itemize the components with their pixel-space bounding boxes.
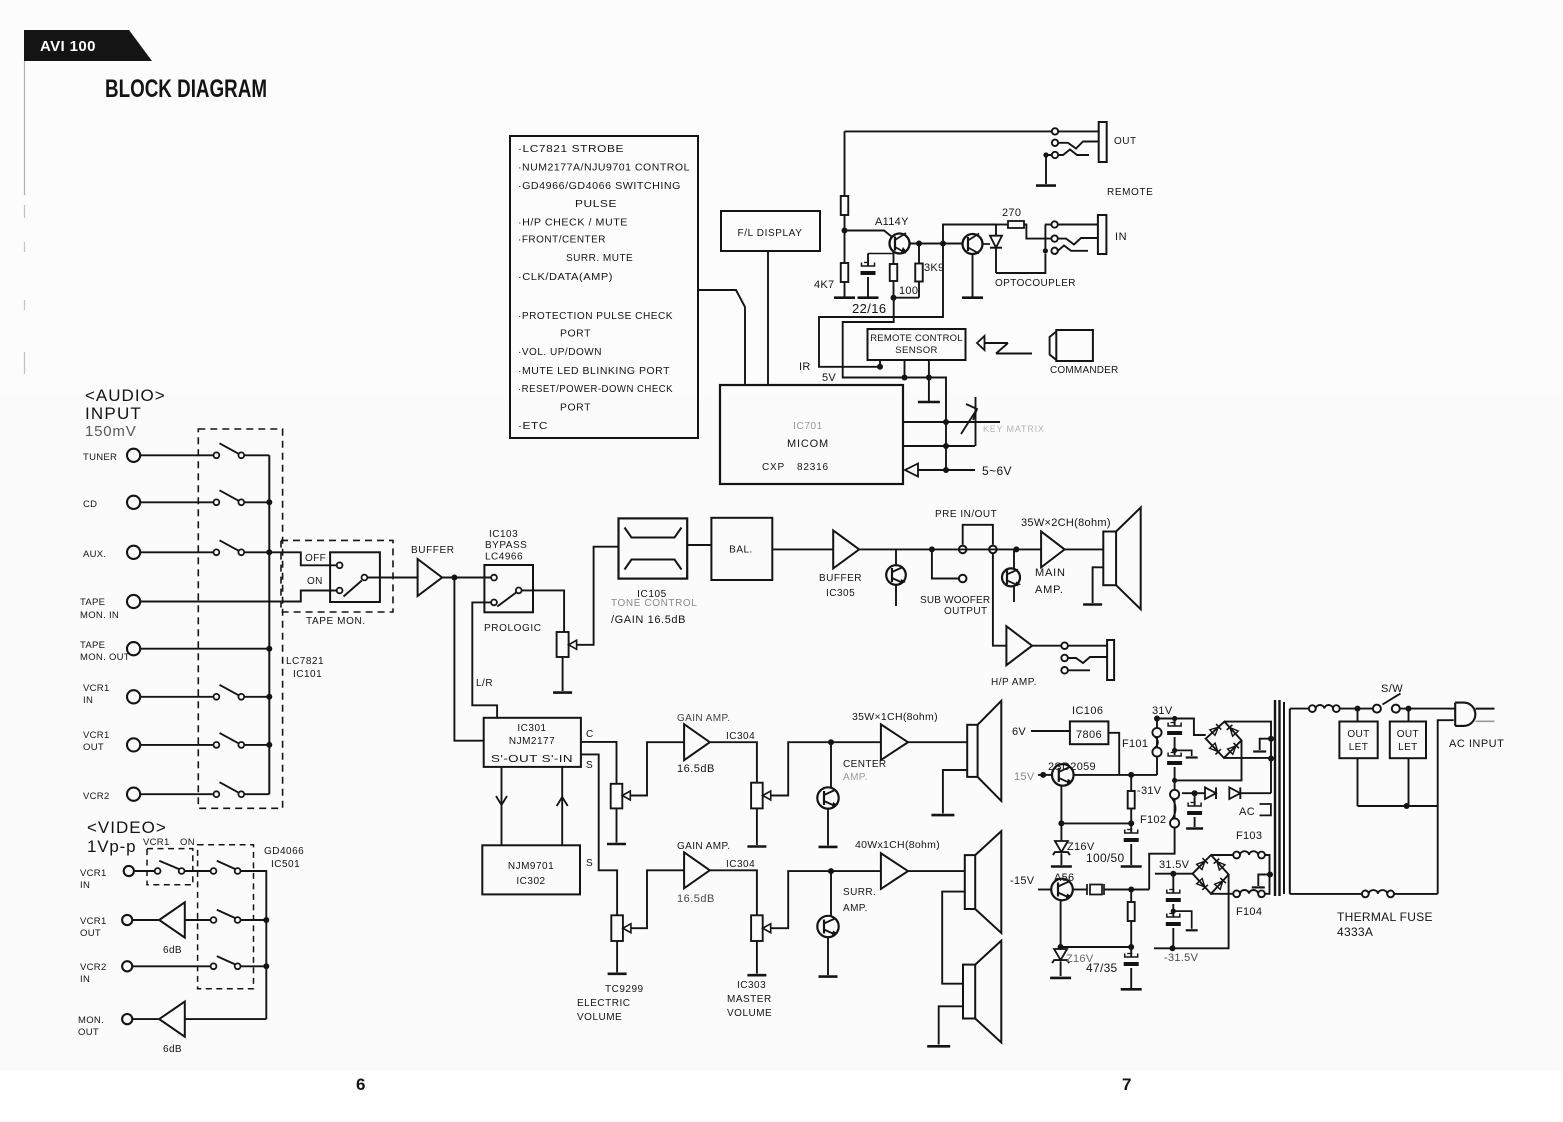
wire remote out sleeve to ground xyxy=(1046,155,1052,184)
ground xyxy=(1036,184,1056,187)
ground xyxy=(747,974,766,977)
svg-text:IC303: IC303 xyxy=(737,980,766,991)
resistor 100 xyxy=(890,264,898,281)
svg-text:OUT: OUT xyxy=(1114,136,1137,147)
wire common to buffer xyxy=(367,577,417,579)
svg-text:MON. OUT: MON. OUT xyxy=(80,652,130,663)
surround amp xyxy=(881,853,908,889)
svg-text:IN: IN xyxy=(80,974,90,985)
svg-text:SURR. MUTE: SURR. MUTE xyxy=(566,253,633,264)
svg-text:GAIN AMP.: GAIN AMP. xyxy=(677,713,730,724)
svg-text:PROLOGIC: PROLOGIC xyxy=(484,623,542,634)
svg-text:270: 270 xyxy=(1002,207,1021,219)
MICOM port list box xyxy=(510,136,698,438)
svg-text:VCR1: VCR1 xyxy=(83,683,110,694)
svg-text:47/35: 47/35 xyxy=(1086,961,1118,975)
svg-text:OUT: OUT xyxy=(80,928,101,939)
wire phototransistor emitter to ground xyxy=(972,254,974,298)
ground xyxy=(608,972,627,975)
svg-text:CENTER: CENTER xyxy=(843,759,887,770)
ground xyxy=(962,296,983,299)
transformer winding tap lower xyxy=(1258,875,1270,887)
svg-text:PULSE: PULSE xyxy=(575,199,617,210)
svg-text:6dB: 6dB xyxy=(163,1044,182,1055)
wire and switch AUX. xyxy=(140,551,213,553)
svg-text:S: S xyxy=(586,760,593,771)
wire to headphone jack xyxy=(1032,645,1061,647)
svg-text:AMP.: AMP. xyxy=(1035,584,1064,596)
svg-text:1Vp-p: 1Vp-p xyxy=(87,837,136,856)
svg-text:·NUM2177A/NJU9701 CONTROL: ·NUM2177A/NJU9701 CONTROL xyxy=(518,163,690,174)
ground xyxy=(858,296,879,299)
outlet 2 xyxy=(1390,722,1426,759)
svg-text:7806: 7806 xyxy=(1076,729,1102,741)
svg-text:AC INPUT: AC INPUT xyxy=(1449,738,1504,750)
svg-text:·ETC: ·ETC xyxy=(518,421,548,432)
svg-text:TAPE MON.: TAPE MON. xyxy=(306,616,366,627)
wire F/L DISPLAY to MICOM xyxy=(767,251,769,385)
video amp 6dB out xyxy=(132,919,159,921)
svg-text:ON: ON xyxy=(180,837,195,848)
svg-text:/GAIN 16.5dB: /GAIN 16.5dB xyxy=(611,614,686,626)
svg-text:NJM9701: NJM9701 xyxy=(508,861,554,872)
ground xyxy=(747,845,766,848)
svg-text:PORT: PORT xyxy=(560,403,591,414)
svg-text:IC501: IC501 xyxy=(271,859,300,870)
ground xyxy=(1121,988,1142,991)
switch GD4066 b xyxy=(185,919,211,921)
svg-text:REMOTE: REMOTE xyxy=(1107,187,1153,198)
wire monitor amp to bus xyxy=(185,1018,266,1020)
svg-text:BYPASS: BYPASS xyxy=(485,540,527,551)
svg-text:F101: F101 xyxy=(1122,738,1148,750)
ground xyxy=(607,843,626,846)
wire sub woofer branch xyxy=(932,549,959,578)
video amp 6dB monitor xyxy=(132,1018,159,1020)
svg-text:-31V: -31V xyxy=(1137,785,1162,797)
wire and switch VCR1OUT xyxy=(140,744,213,746)
wire tape monitor out xyxy=(140,648,269,650)
wire to center speaker xyxy=(908,741,967,743)
wire master pot to center amp xyxy=(771,742,881,795)
buffer IC305 xyxy=(833,530,859,568)
wire input bus xyxy=(268,455,270,794)
svg-text:35W×2CH(8ohm): 35W×2CH(8ohm) xyxy=(1021,517,1111,529)
svg-text:L/R: L/R xyxy=(476,678,493,689)
optocoupler phototransistor xyxy=(963,234,983,254)
svg-text:VCR1: VCR1 xyxy=(80,868,107,879)
sensor pins xyxy=(879,360,881,367)
svg-text:ELECTRIC: ELECTRIC xyxy=(577,998,630,1009)
switch block LC7821 IC101 dashed box xyxy=(198,429,282,808)
wire video bus top xyxy=(241,871,267,1019)
wire A56 emitter xyxy=(1060,900,1062,947)
node key matrix switch xyxy=(975,397,977,446)
svg-text:MON. IN: MON. IN xyxy=(80,610,119,621)
wire to surround speaker 1 xyxy=(908,870,965,872)
svg-text:F103: F103 xyxy=(1236,830,1262,842)
wire pot S ground 2 xyxy=(756,941,758,974)
svg-text:·MUTE LED BLINKING PORT: ·MUTE LED BLINKING PORT xyxy=(518,366,670,377)
ground xyxy=(1121,865,1142,868)
wire center speaker return xyxy=(943,770,967,813)
svg-text:·FRONT/CENTER: ·FRONT/CENTER xyxy=(518,235,606,246)
svg-text:IN: IN xyxy=(83,695,93,706)
svg-text:MASTER: MASTER xyxy=(727,994,772,1005)
svg-text:100: 100 xyxy=(899,285,918,297)
ground xyxy=(1050,977,1071,980)
wire and switch VCR1IN xyxy=(140,696,213,698)
resistor divider upper xyxy=(1130,775,1132,791)
pot electric volume C xyxy=(611,784,623,809)
wire pot C ground xyxy=(616,808,618,842)
block IC105 tone control xyxy=(619,518,688,578)
svg-text:THERMAL FUSE: THERMAL FUSE xyxy=(1337,910,1433,924)
wire and switch CD xyxy=(140,501,213,503)
ground xyxy=(834,296,855,299)
main amp xyxy=(1041,531,1065,567)
wire key matrix lines xyxy=(903,421,1000,423)
block BAL xyxy=(711,518,772,580)
wire lower divider xyxy=(1061,946,1132,948)
svg-text:-31.5V: -31.5V xyxy=(1164,952,1199,964)
svg-text:ON: ON xyxy=(307,576,323,587)
wire wiper to IC105 xyxy=(577,547,619,645)
zener Z16V xyxy=(1055,841,1068,852)
resistor divider lower xyxy=(1130,890,1132,903)
svg-text:OUTPUT: OUTPUT xyxy=(944,606,988,617)
transformer winding tap upper xyxy=(1260,739,1271,750)
transistor mute surround xyxy=(830,871,832,916)
svg-text:OUT: OUT xyxy=(1397,729,1419,740)
svg-text:CXP: CXP xyxy=(762,462,785,473)
wire -31.5V rail xyxy=(1154,875,1229,949)
arrow 5-6V supply into MICOM xyxy=(905,464,918,477)
page edge tick line xyxy=(24,61,26,195)
pot gain adjust xyxy=(557,632,569,657)
resistor 270 xyxy=(996,224,1008,226)
svg-text:·PROTECTION PULSE CHECK: ·PROTECTION PULSE CHECK xyxy=(518,311,673,322)
headphone amp H/P xyxy=(1006,626,1032,665)
svg-text:IC305: IC305 xyxy=(826,588,855,599)
switch box VCR1 dashed xyxy=(147,849,193,885)
svg-text:VCR2: VCR2 xyxy=(80,962,107,973)
wire and switch VCR2 xyxy=(140,793,213,795)
svg-text:IN: IN xyxy=(80,880,90,891)
svg-text:AUX.: AUX. xyxy=(83,549,106,560)
speaker main xyxy=(1103,532,1116,586)
zener Z16V lower xyxy=(1054,949,1067,960)
transistor mute 1 xyxy=(895,549,897,565)
svg-text:COMMANDER: COMMANDER xyxy=(1050,365,1118,376)
switch TAPE MON xyxy=(330,552,380,602)
svg-text:IC301: IC301 xyxy=(517,723,546,734)
svg-text:VCR1: VCR1 xyxy=(83,730,110,741)
svg-text:KEY MATRIX: KEY MATRIX xyxy=(983,424,1045,434)
svg-text:MAIN: MAIN xyxy=(1035,567,1066,579)
svg-text:IN: IN xyxy=(1115,231,1127,243)
wire pot to ground xyxy=(562,657,564,691)
capacitor 100/50 xyxy=(1130,823,1132,833)
ground xyxy=(927,1045,950,1048)
resistor 4K7 xyxy=(841,263,849,282)
wire remote out to R 4K7 xyxy=(845,130,1053,132)
svg-text:H/P AMP.: H/P AMP. xyxy=(991,677,1037,688)
wire to R 3K9 xyxy=(918,244,920,264)
resistor 3K9 xyxy=(915,264,923,282)
ground xyxy=(1083,603,1102,606)
transformer core xyxy=(1274,700,1276,896)
svg-text:S'-OUT S'-IN: S'-OUT S'-IN xyxy=(491,754,573,765)
svg-text:22/16: 22/16 xyxy=(852,301,887,316)
tape mon dashed box xyxy=(281,540,393,612)
title banner AVI 100 xyxy=(24,30,152,61)
svg-text:·LC7821 STROBE: ·LC7821 STROBE xyxy=(518,144,624,155)
wire S-in arrow xyxy=(561,767,563,845)
outlet 1 xyxy=(1339,722,1377,759)
svg-text:PORT: PORT xyxy=(560,329,591,340)
svg-text:IC304: IC304 xyxy=(726,859,755,870)
wire S channel xyxy=(581,754,617,915)
wire jack tip from phototransistor circuit xyxy=(1045,224,1051,226)
svg-text:·RESET/POWER-DOWN CHECK: ·RESET/POWER-DOWN CHECK xyxy=(518,384,673,395)
svg-text:S: S xyxy=(586,858,593,869)
svg-text:AMP.: AMP. xyxy=(843,903,868,914)
wire resistor to ground xyxy=(844,282,846,298)
svg-text:CD: CD xyxy=(83,499,97,510)
svg-text:TC9299: TC9299 xyxy=(605,984,644,995)
svg-text:-15V: -15V xyxy=(1010,875,1035,887)
speaker surround 2 xyxy=(963,965,975,1019)
svg-text:3K9: 3K9 xyxy=(924,262,944,274)
svg-text:6: 6 xyxy=(356,1075,365,1094)
jack pre out xyxy=(959,546,967,554)
capacitor 47/35 xyxy=(1130,947,1132,957)
ground below sensor xyxy=(918,401,940,404)
bridge rectifier upper xyxy=(1206,722,1242,758)
wire surround series link xyxy=(942,892,965,984)
svg-text:·VOL. UP/DOWN: ·VOL. UP/DOWN xyxy=(518,347,602,358)
wire 7806 output xyxy=(1108,733,1119,775)
transistor mute 2 xyxy=(1013,549,1015,568)
wire 31V rail to bridge xyxy=(1157,719,1206,736)
thermal fuse xyxy=(1290,893,1362,895)
wire speaker return xyxy=(1093,567,1104,603)
svg-text:LC7821: LC7821 xyxy=(286,656,324,667)
center amp xyxy=(881,724,908,760)
svg-text:VCR2: VCR2 xyxy=(83,791,110,802)
svg-text:31.5V: 31.5V xyxy=(1159,859,1190,871)
svg-text:OUT: OUT xyxy=(83,742,104,753)
svg-text:IC304: IC304 xyxy=(726,731,755,742)
svg-text:6dB: 6dB xyxy=(163,945,182,956)
pot master volume C xyxy=(751,783,763,809)
block IC301 NJM2177 xyxy=(484,718,581,767)
wire base xyxy=(845,231,892,237)
wire bridge to transformer top xyxy=(1224,722,1271,739)
svg-text:F/L DISPLAY: F/L DISPLAY xyxy=(738,228,803,239)
wire gain amp to master pot xyxy=(710,742,757,783)
wire to GD4066 switch xyxy=(185,870,211,872)
svg-text:INPUT: INPUT xyxy=(85,404,142,423)
optocoupler LED diode xyxy=(995,225,997,236)
wire to main speaker xyxy=(1065,548,1104,550)
svg-text:82316: 82316 xyxy=(797,462,829,473)
wire BAL to buffer IC305 xyxy=(772,548,833,550)
wire AC neutral down xyxy=(1438,720,1454,894)
wire main signal line xyxy=(859,548,1041,550)
speaker center xyxy=(967,725,977,777)
svg-text:100/50: 100/50 xyxy=(1086,851,1125,865)
wire outlet return rail xyxy=(1358,805,1438,807)
svg-text:PRE IN/OUT: PRE IN/OUT xyxy=(935,509,997,520)
svg-text:C: C xyxy=(586,729,594,740)
wire OFF contact to bus xyxy=(269,552,336,565)
bridge rectifier lower xyxy=(1193,855,1229,894)
svg-text:35W×1CH(8ohm): 35W×1CH(8ohm) xyxy=(852,711,938,723)
svg-text:GD4066: GD4066 xyxy=(264,846,304,857)
svg-text:BAL.: BAL. xyxy=(729,545,753,556)
svg-text:AVI 100: AVI 100 xyxy=(40,38,96,55)
wire primary loop left xyxy=(1289,709,1291,894)
speaker surround 1 xyxy=(965,855,975,909)
wire surround speaker 2 return xyxy=(939,1006,963,1044)
IR beam arrow xyxy=(977,336,985,350)
remote control sensor block xyxy=(868,329,966,360)
ground xyxy=(553,691,572,694)
wire to base node xyxy=(844,215,846,263)
svg-text:TUNER: TUNER xyxy=(83,452,117,463)
resistor upper xyxy=(841,196,849,215)
svg-text:BLOCK DIAGRAM: BLOCK DIAGRAM xyxy=(105,75,267,103)
svg-text:·GD4966/GD4066 SWITCHING: ·GD4966/GD4066 SWITCHING xyxy=(518,181,681,192)
wire and switch TUNER xyxy=(140,454,213,456)
svg-text:BUFFER: BUFFER xyxy=(411,545,455,556)
switch VCR1 on xyxy=(134,870,155,872)
svg-text:LET: LET xyxy=(1349,742,1369,753)
svg-text:4K7: 4K7 xyxy=(814,279,834,291)
jack pre in xyxy=(989,546,997,554)
wire gain amp to master pot S xyxy=(710,870,757,915)
wire IC103 out to gain pot xyxy=(522,590,565,632)
AC plug xyxy=(1455,703,1475,726)
ground xyxy=(819,975,838,978)
svg-text:TAPE: TAPE xyxy=(80,597,105,608)
svg-text:SENSOR: SENSOR xyxy=(895,345,938,356)
block NJM9701 IC302 xyxy=(482,845,580,894)
svg-text:OUT: OUT xyxy=(78,1027,99,1038)
wire pot S ground xyxy=(616,941,618,972)
svg-text:40Wx1CH(8ohm): 40Wx1CH(8ohm) xyxy=(855,839,940,851)
svg-text:VOLUME: VOLUME xyxy=(727,1008,772,1019)
pot master volume S xyxy=(751,915,763,941)
wire IC105 to BAL xyxy=(687,544,711,546)
pot electric volume S xyxy=(611,915,623,941)
ground xyxy=(931,814,954,817)
jack REMOTE IN xyxy=(1051,221,1057,227)
wire buffer out down to IC301 xyxy=(454,578,483,741)
jack headphone xyxy=(1061,642,1068,649)
block F/L DISPLAY xyxy=(721,211,820,251)
svg-text:REMOTE CONTROL: REMOTE CONTROL xyxy=(870,333,963,344)
svg-text:7: 7 xyxy=(1122,1075,1131,1094)
wire master pot S to surr amp xyxy=(771,871,881,928)
micom IC701 CXP82316 xyxy=(720,385,903,484)
svg-text:VOLUME: VOLUME xyxy=(577,1012,622,1023)
svg-text:F102: F102 xyxy=(1140,814,1166,826)
svg-text:TONE CONTROL: TONE CONTROL xyxy=(611,598,697,609)
inductor F101 xyxy=(1156,719,1158,767)
wire 2SD2059 emitter xyxy=(1060,786,1062,841)
svg-text:<VIDEO>: <VIDEO> xyxy=(87,818,167,837)
svg-text:31V: 31V xyxy=(1152,705,1173,717)
svg-text:4333A: 4333A xyxy=(1337,925,1373,939)
coupling component xyxy=(1073,889,1087,891)
svg-text:NJM2177: NJM2177 xyxy=(509,736,555,747)
svg-text:IC302: IC302 xyxy=(516,876,545,887)
svg-text:5~6V: 5~6V xyxy=(982,464,1012,478)
wire emitter to R100 xyxy=(893,253,895,265)
wire F102 to A56 row xyxy=(1149,837,1174,890)
wire C channel xyxy=(581,742,617,784)
svg-text:MON.: MON. xyxy=(78,1015,104,1026)
ground xyxy=(819,846,838,849)
switch block GD4066 IC501 dashed xyxy=(198,845,254,989)
jack REMOTE OUT xyxy=(1052,128,1058,134)
svg-text:IR: IR xyxy=(799,361,811,373)
wire S-out arrow xyxy=(501,767,503,845)
svg-text:IC101: IC101 xyxy=(293,669,322,680)
wire IR line to sensor xyxy=(819,244,943,367)
wire LED return loop xyxy=(996,254,1045,273)
svg-text:TAPE: TAPE xyxy=(80,640,105,651)
svg-text:IC701: IC701 xyxy=(793,421,823,432)
svg-text:150mV: 150mV xyxy=(85,423,137,440)
transistor mute center xyxy=(830,742,832,787)
svg-text:GAIN AMP.: GAIN AMP. xyxy=(677,841,730,852)
svg-text:OFF: OFF xyxy=(305,553,326,564)
svg-text:·H/P CHECK / MUTE: ·H/P CHECK / MUTE xyxy=(518,218,628,229)
svg-text:A114Y: A114Y xyxy=(875,216,909,228)
svg-text:LET: LET xyxy=(1398,742,1418,753)
wire 31.5V rail xyxy=(1155,873,1193,875)
wire L/R line xyxy=(472,602,497,717)
fuse primary xyxy=(1290,708,1309,710)
svg-text:16.5dB: 16.5dB xyxy=(677,763,715,775)
svg-text:AC: AC xyxy=(1239,806,1255,818)
inductor F102 xyxy=(1174,780,1176,837)
wire buffer out xyxy=(442,577,491,579)
svg-text:SUB WOOFER: SUB WOOFER xyxy=(920,595,990,606)
capacitor filter bank upper xyxy=(1174,719,1176,727)
svg-text:F104: F104 xyxy=(1236,906,1262,918)
wire 3K9 bottom xyxy=(918,282,920,298)
svg-text:VCR1: VCR1 xyxy=(80,916,107,927)
wire tape monitor in to ON contact xyxy=(140,591,337,602)
svg-text:MICOM: MICOM xyxy=(787,438,829,450)
svg-text:VCR1: VCR1 xyxy=(143,837,170,848)
jack sub woofer output xyxy=(959,575,967,583)
svg-text:16.5dB: 16.5dB xyxy=(677,893,715,905)
svg-text:LC4966: LC4966 xyxy=(485,552,523,563)
svg-text:5V: 5V xyxy=(822,372,836,384)
wire bridge negative to -31V rail xyxy=(1175,740,1242,780)
wire to headphone amp xyxy=(993,553,1007,646)
wire 5V rail to sensor xyxy=(843,298,946,470)
svg-text:AMP.: AMP. xyxy=(843,772,868,783)
commander remote unit xyxy=(1056,330,1093,361)
wire collector up to IN jack xyxy=(943,225,996,244)
